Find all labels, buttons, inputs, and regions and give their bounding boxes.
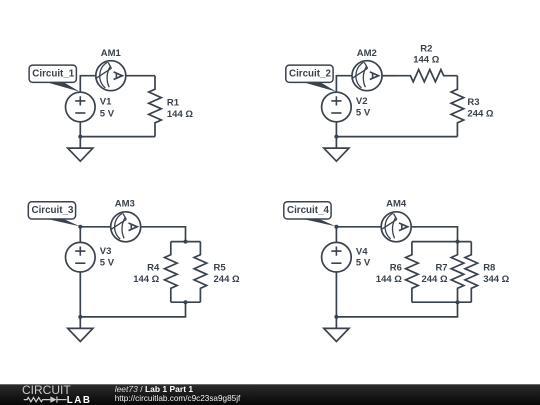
resistor R6	[406, 242, 419, 303]
svg-text:V1: V1	[100, 96, 112, 107]
ammeter AM1	[96, 61, 126, 91]
ground	[68, 137, 93, 162]
node circuit 4 ground node	[334, 315, 338, 319]
wire V3 bottom	[79, 272, 81, 317]
svg-text:144 Ω: 144 Ω	[376, 274, 402, 285]
voltage source V3	[66, 242, 96, 272]
resistor R3	[451, 76, 464, 137]
resistor R4	[165, 242, 178, 303]
svg-text:leet73 / Lab 1 Part 1: leet73 / Lab 1 Part 1	[115, 384, 194, 394]
node parallel bottom node	[184, 300, 188, 304]
wire V1 bottom	[79, 122, 81, 137]
svg-text:R4: R4	[147, 263, 160, 274]
wire V4 bottom	[335, 272, 337, 317]
ground	[68, 317, 93, 342]
wire parallel top bar	[171, 241, 201, 243]
svg-text:V3: V3	[100, 246, 112, 257]
ground	[324, 137, 349, 162]
svg-text:144 Ω: 144 Ω	[133, 274, 159, 285]
svg-text:5 V: 5 V	[100, 108, 115, 119]
wire V2 bottom	[335, 122, 337, 137]
svg-text:R6: R6	[390, 263, 402, 274]
svg-text:R8: R8	[483, 263, 495, 274]
ammeter AM2	[352, 61, 382, 91]
svg-text:5 V: 5 V	[100, 258, 115, 269]
voltage source V2	[322, 92, 352, 122]
wire V2 top to AM2	[336, 76, 352, 93]
wire V4 top	[335, 227, 337, 243]
logo resistor-diode icon	[24, 397, 67, 403]
svg-text:5 V: 5 V	[356, 108, 371, 119]
label bubble Circuit_4	[284, 202, 336, 227]
wire R1 bottom to node	[80, 136, 155, 138]
resistor R7	[451, 242, 464, 303]
wire parallel bottom to ground node	[80, 302, 185, 317]
svg-text:R1: R1	[167, 98, 180, 109]
wire parallel bottom bar	[412, 301, 471, 303]
resistor R5	[194, 242, 207, 303]
label bubble Circuit_3	[28, 202, 80, 227]
svg-text:V4: V4	[356, 246, 368, 257]
wire parallel bottom bar	[171, 301, 201, 303]
resistor R1	[149, 76, 162, 137]
label bubble Circuit_2	[286, 65, 336, 92]
node circuit 3 node A	[78, 225, 82, 229]
svg-text:244 Ω: 244 Ω	[467, 108, 493, 119]
wire AM2 to R2	[382, 75, 397, 77]
node parallel top node	[184, 240, 188, 244]
node circuit 1 ground node	[78, 135, 82, 139]
svg-text:344 Ω: 344 Ω	[483, 274, 509, 285]
svg-text:144 Ω: 144 Ω	[167, 109, 193, 120]
svg-text:R5: R5	[214, 263, 227, 274]
svg-text:CIRCUIT: CIRCUIT	[22, 383, 71, 397]
wire R3 bottom to node	[336, 136, 457, 138]
resistor R2	[397, 70, 457, 82]
svg-text:R7: R7	[435, 263, 447, 274]
svg-text:http://circuitlab.com/c9c23sa9: http://circuitlab.com/c9c23sa9g85jf	[115, 394, 241, 403]
svg-text:LAB: LAB	[67, 395, 92, 405]
voltage source V1	[66, 92, 96, 122]
wire AM1 to R1	[126, 75, 155, 77]
resistor R8	[465, 242, 478, 303]
ammeter AM4	[381, 212, 411, 242]
node parallel bottom node	[456, 300, 460, 304]
wire node to AM4	[336, 226, 381, 228]
svg-text:AM2: AM2	[357, 48, 377, 59]
wire V3 top	[79, 227, 81, 243]
svg-text:5 V: 5 V	[356, 258, 371, 269]
ammeter AM3	[111, 212, 141, 242]
svg-text:R2: R2	[420, 44, 432, 55]
svg-text:AM3: AM3	[115, 199, 135, 210]
svg-text:AM1: AM1	[101, 48, 122, 59]
label bubble Circuit_1	[29, 65, 80, 92]
node circuit 4 node B	[334, 225, 338, 229]
svg-text:Circuit_3: Circuit_3	[32, 205, 74, 216]
wire V1 top to AM1	[80, 76, 96, 93]
wire parallel bottom to ground node	[336, 302, 457, 317]
svg-text:Circuit_1: Circuit_1	[32, 69, 74, 80]
svg-text:Circuit_4: Circuit_4	[287, 205, 329, 216]
voltage source V4	[322, 242, 352, 272]
svg-text:V2: V2	[356, 96, 368, 107]
ground	[324, 317, 349, 342]
svg-text:144 Ω: 144 Ω	[413, 55, 439, 66]
svg-text:244 Ω: 244 Ω	[421, 274, 447, 285]
node parallel top node	[456, 240, 460, 244]
svg-text:R3: R3	[467, 97, 479, 108]
svg-text:AM4: AM4	[386, 199, 407, 210]
svg-text:Circuit_2: Circuit_2	[289, 69, 331, 80]
svg-text:244 Ω: 244 Ω	[214, 274, 240, 285]
wire AM4 to parallel top	[411, 227, 457, 242]
wire AM3 to parallel top	[141, 227, 186, 242]
wire parallel top bar	[412, 241, 471, 243]
node circuit 2 ground node	[334, 135, 338, 139]
node circuit 3 ground node	[78, 315, 82, 319]
wire node to AM3	[80, 226, 111, 228]
